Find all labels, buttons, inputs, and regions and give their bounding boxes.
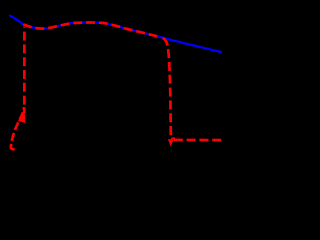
arrowhead up, left jump: [18, 111, 25, 123]
red dashed upward jump line, left: [23, 27, 26, 113]
red dashed downward jump line, right: [162, 37, 171, 137]
red dashed sweep along the curve: [23, 23, 161, 38]
arrowhead down, right jump: [168, 139, 174, 146]
blue response curve: [10, 16, 221, 52]
corner nub where right jump meets lower branch: [171, 137, 175, 140]
red dashed lower branch, bottom right horizontal: [174, 139, 221, 142]
red dashed trajectory tail, lower left: [11, 107, 24, 149]
